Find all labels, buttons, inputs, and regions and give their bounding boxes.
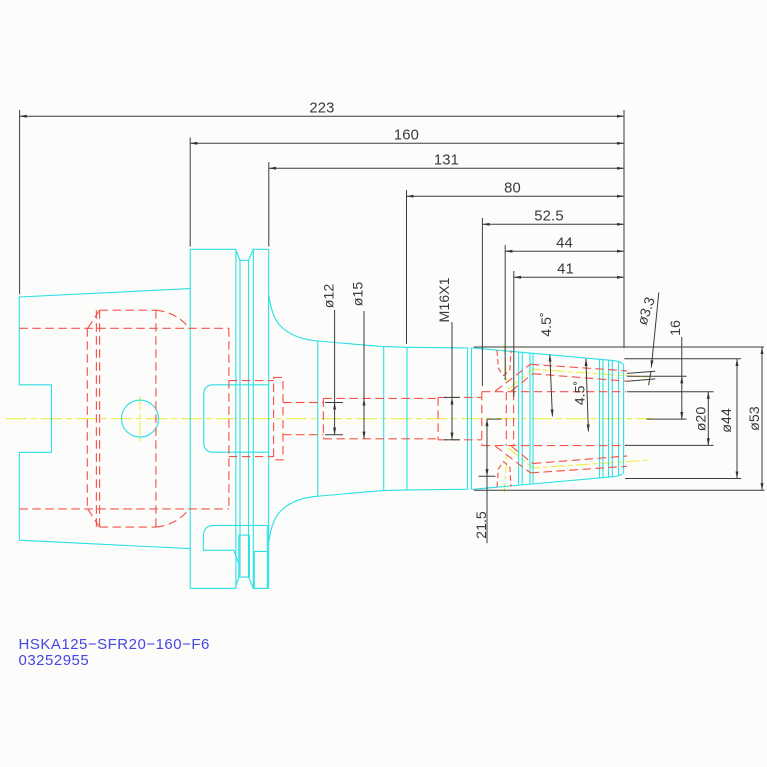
svg-text:ø15: ø15 [351, 282, 367, 307]
coolant slot axis top [504, 345, 506, 382]
coolant slot axis bottom [504, 456, 506, 493]
M16X1 arrows [451, 397, 453, 439]
flange left face [189, 249, 191, 588]
centerline cross of shank circle [139, 396, 141, 442]
svg-text:ø44: ø44 [719, 408, 735, 433]
collet slant lower bottom [511, 446, 533, 463]
collet slant upper bottom [495, 446, 530, 473]
angle 4.5 arrow line 2 [586, 359, 589, 432]
V-groove inner edge line 2 [248, 260, 250, 577]
dimension line 52.5 [482, 223, 624, 225]
shank center circle [122, 400, 159, 437]
svg-text:ø12: ø12 [321, 284, 337, 309]
V-groove outer edge line 2 [252, 249, 254, 588]
svg-text:21.5: 21.5 [474, 511, 490, 539]
21.5 dim line [486, 419, 488, 476]
dim 16 leader [681, 337, 683, 376]
nose cone bottom edge [471, 471, 623, 489]
svg-text:ø53: ø53 [747, 406, 763, 431]
shank cavity top line [100, 309, 156, 311]
svg-text:80: 80 [504, 181, 521, 197]
nose end face [623, 366, 625, 471]
body section line 1 [317, 341, 319, 496]
extension line 80 [406, 190, 408, 344]
svg-text:131: 131 [434, 153, 459, 169]
dimension line 80 [407, 195, 625, 197]
collet taper outer top [531, 364, 628, 371]
nose ring line 3 [529, 353, 531, 484]
shank bore bottom line [19, 508, 229, 510]
d44 dim line [736, 359, 738, 479]
extension line right common [623, 110, 625, 348]
V-groove outer edge line 1 [235, 249, 237, 588]
flange bottom detail slot left wall [238, 535, 240, 577]
svg-text:ø20: ø20 [694, 407, 710, 432]
M16X1 tick bottom [444, 439, 460, 441]
nose ring line 5 [599, 359, 601, 478]
d44 tick top [624, 358, 741, 360]
d20 tick top [627, 391, 714, 393]
svg-text:16: 16 [668, 320, 684, 336]
cavity entry chamfer top [88, 310, 100, 328]
cavity arc bottom right [156, 509, 189, 527]
nose groove line 1 [467, 348, 469, 489]
M16 step [437, 397, 439, 439]
d53 dim line [761, 347, 763, 490]
bore step line 2 [95, 310, 97, 527]
nose cone top edge [471, 348, 623, 366]
nose ring line 2 [521, 352, 523, 484]
shank bore top line [19, 327, 229, 329]
body section line 2 [383, 347, 385, 491]
collet slant upper top [495, 364, 530, 391]
d3.3 hole line 2 [627, 379, 655, 381]
collet slant lower top [511, 374, 533, 391]
21.5 tick top [487, 418, 502, 420]
flange bottom detail right step [254, 525, 267, 588]
M16 thread top [438, 396, 482, 398]
svg-text:41: 41 [557, 262, 574, 278]
drive slot rounded rectangle [204, 385, 269, 452]
svg-text:M16X1: M16X1 [437, 277, 453, 322]
d20 dim line [707, 392, 709, 446]
collet taper inner top [533, 374, 627, 382]
21.5 leader extension [486, 476, 488, 543]
nose groove line 2 [470, 348, 472, 490]
flange bottom detail plate [203, 525, 267, 563]
collet taper outer bottom [531, 466, 628, 473]
dimension line 160 [190, 142, 624, 144]
extension line 52.5 [481, 218, 483, 386]
d53 tick top [474, 346, 764, 348]
coolant slot bottom [497, 462, 511, 487]
bore shoulder top [229, 380, 274, 382]
flange bottom edge with V-groove [190, 577, 268, 588]
collet rear face line 2 [513, 392, 515, 446]
nose ring line 4 [532, 353, 534, 483]
cavity entry chamfer bottom [88, 509, 100, 527]
shank cavity bottom line [100, 526, 156, 528]
dim 16 arrows [681, 376, 683, 419]
HSK taper shank outline [19, 289, 190, 549]
d20 tick bottom [625, 444, 714, 446]
angle 4.5 arrow line 1 [550, 355, 553, 417]
d53 tick bottom [474, 489, 765, 491]
flange right face [268, 249, 270, 588]
d15 step [322, 398, 324, 438]
body top profile with fillet [269, 295, 468, 348]
centerline main axis [6, 418, 653, 420]
body section line 3 [406, 347, 408, 490]
extension line left end 223 [19, 110, 21, 294]
d20 bore top [482, 391, 626, 393]
d12 bore bottom [283, 434, 323, 436]
flange top edge with V-groove [190, 249, 268, 260]
svg-text:4.5˚: 4.5˚ [572, 381, 588, 405]
extension line 44 [504, 245, 506, 380]
body bottom profile with fillet [269, 489, 468, 542]
extension line 160 [189, 138, 191, 247]
V-groove inner edge line 1 [239, 260, 241, 577]
d15 leader line [363, 311, 365, 398]
extension line 131 [268, 162, 270, 247]
d3.3 hole line 1 [627, 371, 655, 373]
bore step line 3 [99, 310, 101, 527]
flange bottom detail slot right wall [248, 535, 250, 577]
d3.3 leader upper [651, 293, 659, 368]
coolant channel axis top [508, 369, 651, 389]
nose ring line 8 [611, 361, 613, 477]
collet rear face line 1 [505, 392, 507, 446]
pilot bore rectangle [274, 377, 283, 459]
flange bore line [228, 328, 230, 509]
d12 tick top [325, 402, 343, 404]
svg-text:223: 223 [309, 101, 334, 117]
svg-text:4.5˚: 4.5˚ [539, 312, 555, 336]
cavity end line [155, 310, 157, 527]
svg-text:HSKA125−SFR20−160−F6: HSKA125−SFR20−160−F6 [19, 636, 210, 653]
cavity arc top right [156, 310, 189, 328]
dimension line 41 [514, 276, 624, 278]
nose ring line 6 [602, 360, 604, 478]
M16X1 tick top [444, 396, 460, 398]
d3.3 leader lower [649, 372, 651, 386]
svg-text:160: 160 [394, 128, 419, 144]
collet taper inner bottom [533, 456, 627, 464]
extension line 41 [513, 271, 515, 397]
d12 tick bottom [325, 434, 343, 436]
svg-text:44: 44 [556, 236, 573, 252]
svg-text:52.5: 52.5 [534, 209, 563, 225]
d20 bore bottom [482, 445, 626, 447]
M16 thread bottom [438, 439, 482, 441]
dim 16 tick top [627, 375, 687, 377]
coolant slot top [497, 350, 511, 375]
d12 leader line [334, 310, 336, 403]
coolant channel axis bottom [508, 448, 651, 468]
dimension line 223 [20, 115, 624, 117]
svg-text:03252955: 03252955 [19, 652, 90, 669]
M16X1 leader line [451, 322, 453, 397]
d12 bore top [283, 402, 323, 404]
nose ring line 1 [518, 352, 520, 485]
collet cavity step [481, 392, 483, 446]
d12 arrows [334, 403, 336, 435]
d44 tick bottom [625, 478, 741, 480]
nose face inner edge [618, 361, 620, 476]
bore step line 1 [86, 328, 88, 509]
dim 16 tick bottom [647, 418, 687, 420]
flange bottom detail slot top [239, 534, 250, 536]
dimension line 131 [269, 167, 624, 169]
nose ring line 7 [608, 360, 610, 477]
21.5 tick cross [479, 475, 496, 477]
dimension line 44 [505, 250, 624, 252]
d15 arrows [363, 398, 365, 438]
d15 bore top [323, 397, 438, 399]
d15 bore bottom [323, 438, 438, 440]
bore shoulder bottom [229, 456, 274, 458]
